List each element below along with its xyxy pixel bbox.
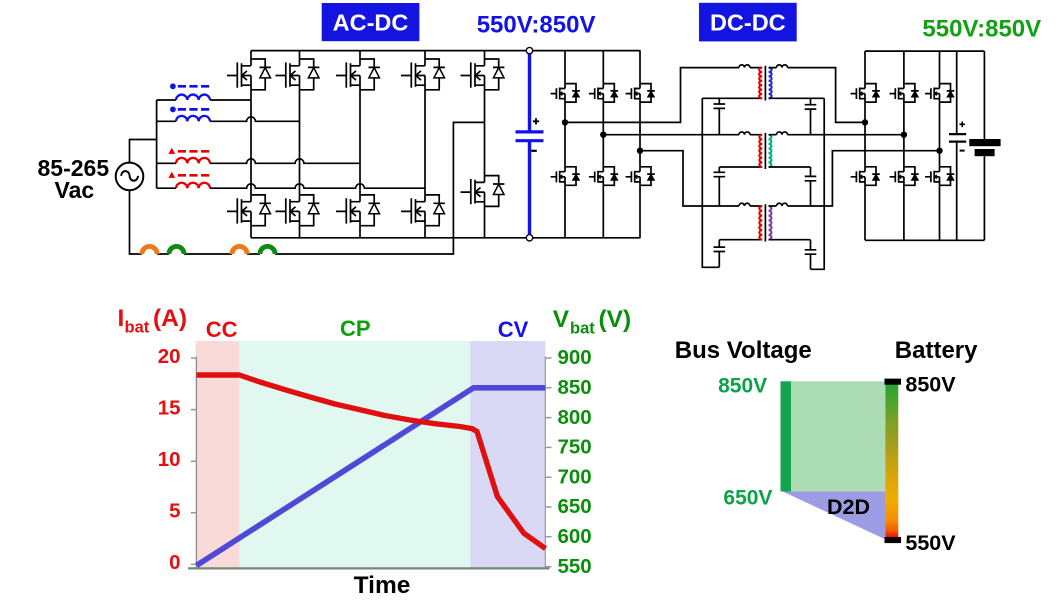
wire secondary ring bus	[811, 98, 825, 269]
wire T2 secondary return	[769, 166, 811, 168]
transformer T2 primary winding	[759, 135, 762, 167]
wire T1 secondary return	[769, 97, 825, 99]
wire phase leg 5	[484, 51, 486, 238]
wire T1 secondary to output phase A	[769, 68, 865, 123]
transformer T1 core	[764, 66, 766, 101]
transistor Q7 low-side	[276, 195, 320, 226]
wire phase leg 1	[250, 51, 252, 238]
wire output leg 1	[864, 51, 866, 240]
svg-text:DC-DC: DC-DC	[710, 10, 786, 36]
current sensor CT3 orange	[232, 246, 247, 254]
wire output leg 2	[903, 51, 905, 240]
svg-text:Vac: Vac	[55, 177, 95, 203]
transistor Q18 output high-side	[890, 84, 919, 103]
svg-text:650: 650	[558, 495, 592, 518]
svg-text:650V: 650V	[723, 487, 772, 510]
voltage source V1 85-265 Vac	[38, 155, 144, 203]
transformer T1 secondary winding	[769, 68, 772, 99]
battery bar bottom cap	[885, 537, 902, 543]
wire phase leg 3	[359, 51, 361, 238]
wire AC source top to inductor bus	[130, 140, 157, 163]
node inductor input bus	[156, 100, 158, 188]
chart right axis	[544, 357, 546, 569]
current sensor CT4 green	[260, 246, 275, 254]
wire AC source bottom return	[130, 122, 485, 254]
node dc bus top	[526, 47, 532, 53]
wire output bus positive rail	[865, 50, 984, 52]
chart left axis	[195, 357, 197, 569]
svg-text:(A): (A)	[153, 305, 187, 332]
transistor Q15 dcdc primary low-side	[589, 167, 618, 186]
transformer T1 primary winding	[759, 68, 762, 99]
inductor Ls2	[777, 132, 788, 135]
svg-text:550: 550	[558, 555, 592, 578]
wire dc bus negative rail	[251, 237, 641, 239]
svg-text:bat: bat	[125, 319, 150, 337]
wire T3 secondary to output phase C	[769, 151, 940, 206]
chart region band CC	[196, 341, 240, 568]
node primary phase A	[562, 119, 568, 125]
capacitor C-dc link 550V:850V	[516, 52, 544, 239]
transistor Q6 low-side	[227, 195, 271, 226]
svg-text:800: 800	[558, 406, 592, 429]
wire T2 secondary to output phase B	[769, 134, 904, 136]
transistor Q19 output high-side	[925, 84, 954, 103]
transistor Q10 low-side line-frequency leg	[461, 176, 505, 207]
chart region band CV	[470, 341, 545, 568]
transistor Q1 high-side	[227, 59, 271, 90]
svg-text:550V:850V: 550V:850V	[477, 12, 596, 39]
inductor Ls3	[777, 203, 788, 206]
wire dcdc primary leg 3	[639, 51, 641, 238]
svg-text:900: 900	[558, 346, 592, 369]
svg-text:Bus Voltage: Bus Voltage	[675, 337, 812, 364]
node output phase A	[862, 119, 868, 125]
transistor Q11 dcdc primary high-side	[551, 84, 580, 103]
transformer T2 secondary winding	[769, 135, 772, 167]
transformer T3 primary winding	[759, 206, 762, 240]
transistor Q3 high-side	[336, 59, 380, 90]
capacitor C-out	[949, 51, 966, 240]
inductor Lr1	[739, 65, 750, 68]
svg-text:15: 15	[158, 396, 181, 419]
D2D triangle region	[783, 492, 886, 540]
bus operating region rectangle	[791, 381, 885, 491]
capacitor Cs3 secondary	[805, 240, 817, 270]
wire primary phase A to T1	[565, 68, 762, 123]
svg-text:700: 700	[558, 465, 592, 488]
current sensor CT1 orange	[142, 246, 157, 254]
wire output bus negative rail	[865, 239, 984, 241]
svg-text:Battery: Battery	[895, 337, 978, 364]
node primary phase C	[637, 148, 643, 154]
inductor L4 coupled red	[157, 172, 425, 189]
svg-text:600: 600	[558, 525, 592, 548]
svg-text:850V: 850V	[905, 372, 956, 396]
curve Vbat blue	[197, 388, 546, 566]
wire dc bus positive rail	[251, 50, 641, 52]
chart x axis Time	[188, 567, 550, 569]
svg-text:0: 0	[169, 551, 180, 574]
svg-text:Time: Time	[354, 572, 411, 599]
wire primary phase B to T2	[603, 134, 762, 136]
node dc bus bottom	[526, 235, 532, 241]
svg-text:20: 20	[158, 345, 181, 368]
node output phase C	[936, 148, 942, 154]
axis title Ibat (A)	[118, 305, 188, 337]
label box DC-DC	[699, 3, 797, 42]
inductor L3 coupled red	[157, 148, 360, 164]
wire output leg 3	[939, 51, 941, 240]
transistor Q4 high-side	[401, 59, 445, 90]
transistor Q5 high-side	[461, 59, 505, 90]
transistor Q9 low-side	[401, 195, 445, 226]
svg-text:bat: bat	[570, 320, 595, 338]
wire T2 primary return	[719, 166, 762, 168]
transistor Q12 dcdc primary high-side	[589, 84, 618, 103]
wire dcdc primary leg 2	[602, 51, 604, 238]
transistor Q17 output high-side	[851, 84, 880, 103]
svg-text:750: 750	[558, 436, 592, 459]
wire T3 secondary return	[769, 239, 811, 241]
transistor Q14 dcdc primary low-side	[551, 167, 580, 186]
inductor Ls1	[777, 65, 788, 68]
battery gradient bar	[885, 381, 898, 539]
wire T3 primary return	[719, 239, 762, 241]
svg-text:(V): (V)	[599, 306, 632, 333]
transistor Q13 dcdc primary high-side	[626, 84, 655, 103]
svg-text:850: 850	[558, 376, 592, 399]
svg-text:550V:850V: 550V:850V	[922, 15, 1041, 42]
svg-text:V: V	[553, 306, 570, 333]
svg-text:D2D: D2D	[827, 495, 870, 519]
label box AC-DC	[322, 3, 420, 41]
wire dcdc primary leg 1	[564, 51, 566, 238]
chart left axis ticks	[191, 358, 197, 564]
bus voltage green bar	[781, 381, 792, 491]
svg-text:CV: CV	[498, 317, 529, 342]
inductor Lr2	[739, 132, 750, 135]
transformer T3 secondary winding	[769, 206, 772, 240]
chart region band CP	[239, 341, 470, 568]
svg-text:5: 5	[169, 500, 180, 523]
capacitor Cs2 secondary	[805, 167, 817, 206]
transistor Q2 high-side	[276, 59, 320, 90]
svg-text:AC-DC: AC-DC	[333, 10, 409, 36]
svg-text:I: I	[118, 305, 125, 332]
wire T1 primary return	[702, 97, 762, 99]
curve Ibat red	[197, 375, 546, 549]
node output phase B	[901, 132, 907, 138]
wire primary ring bus	[702, 98, 719, 267]
wire phase leg 2	[299, 51, 301, 238]
transistor Q21 output low-side	[890, 167, 919, 186]
inductor L1 coupled blue	[157, 83, 251, 100]
transistor Q20 output low-side	[851, 167, 880, 186]
transistor Q16 dcdc primary low-side	[626, 167, 655, 186]
svg-text:550V: 550V	[905, 531, 956, 555]
svg-text:10: 10	[158, 448, 181, 471]
inductor Lr3	[739, 203, 750, 206]
axis title Vbat (V)	[553, 306, 631, 338]
capacitor Cs1 secondary	[805, 98, 817, 134]
current sensor CT2 green	[169, 246, 184, 254]
capacitor Cr2 primary	[714, 167, 726, 206]
transistor Q22 output low-side	[925, 167, 954, 186]
capacitor Cr3 primary	[714, 240, 726, 268]
svg-text:CP: CP	[340, 316, 371, 341]
inductor L2 coupled blue	[157, 107, 300, 122]
transformer T3 core	[764, 204, 766, 241]
battery B1	[969, 51, 1000, 240]
chart right axis ticks	[545, 358, 551, 567]
transformer T2 core	[764, 133, 766, 169]
svg-text:850V: 850V	[718, 375, 767, 398]
transistor Q8 low-side	[336, 195, 380, 226]
battery bar top cap	[885, 379, 902, 385]
wire primary phase C to T3	[640, 151, 762, 206]
capacitor Cr1 primary	[714, 98, 726, 134]
wire phase leg 4	[424, 51, 426, 238]
svg-text:CC: CC	[206, 317, 238, 342]
node primary phase B	[600, 132, 606, 138]
